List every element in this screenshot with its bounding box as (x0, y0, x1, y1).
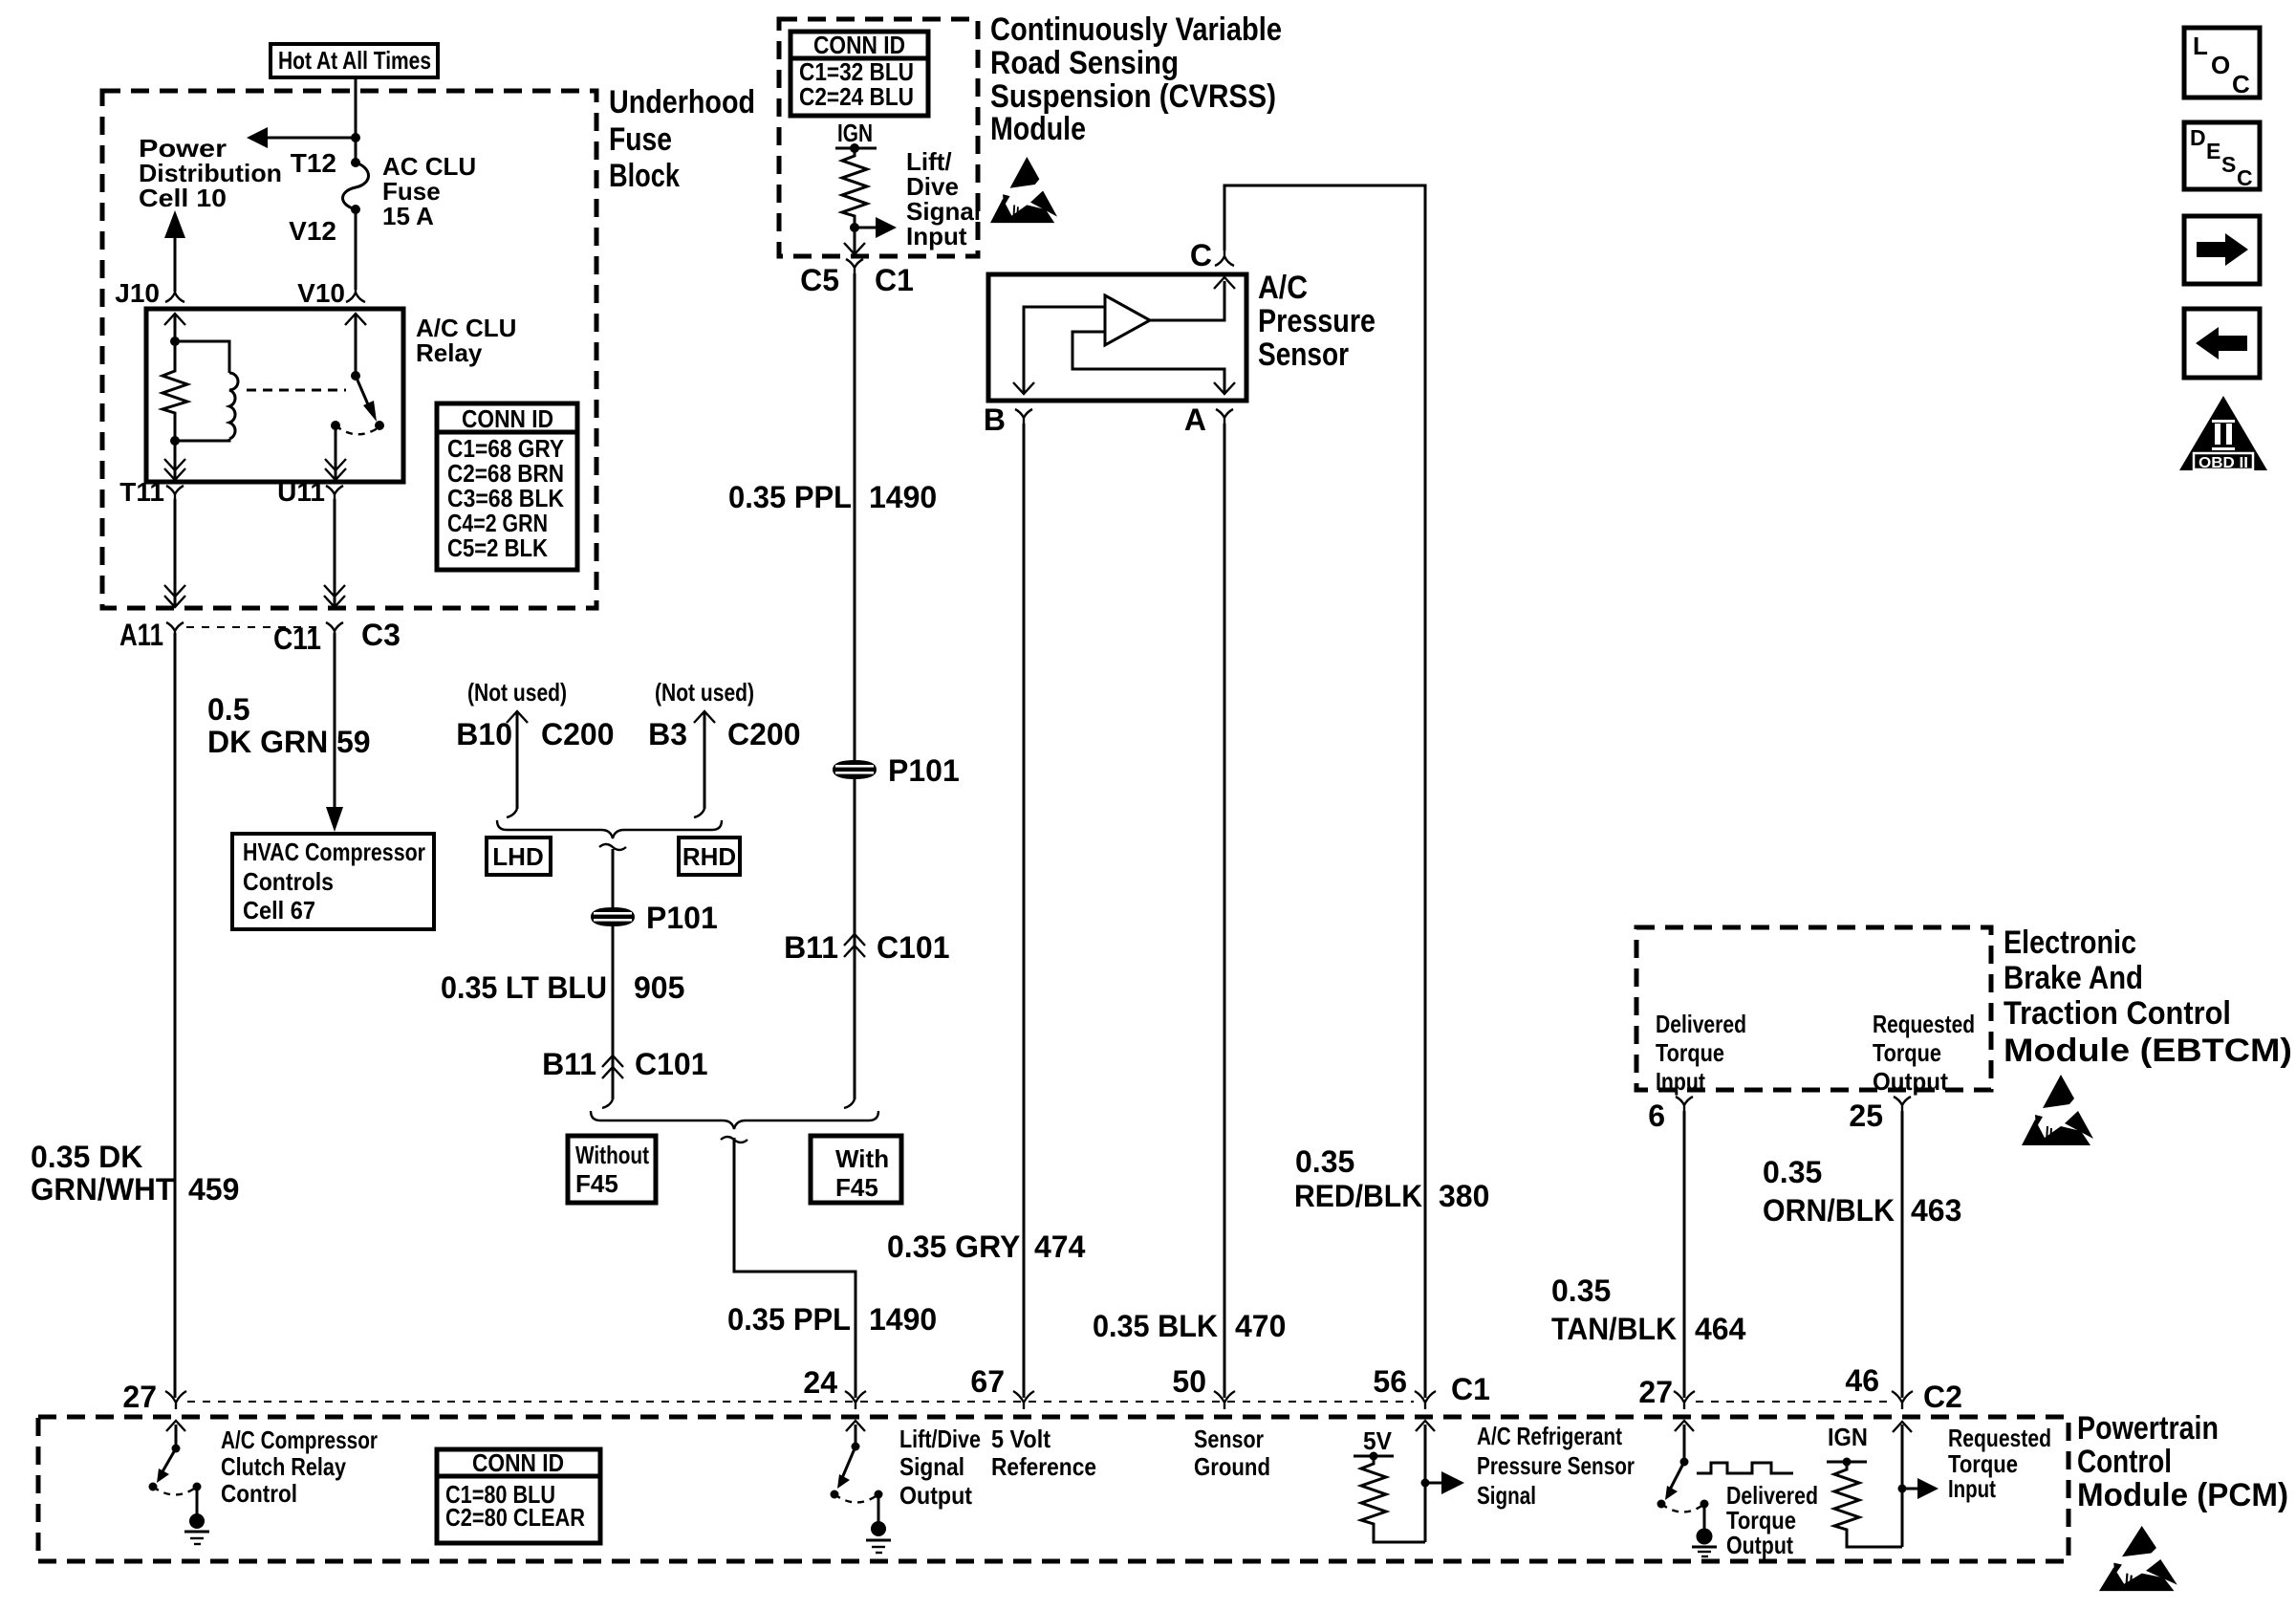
svg-text:B: B (984, 402, 1006, 437)
svg-text:RHD: RHD (682, 842, 736, 871)
svg-text:Requested: Requested (1873, 1010, 1975, 1038)
wire from brace2 down and jog to pin 24 (734, 1138, 856, 1398)
wire pin 25 down to PCM pin 46 (1901, 1111, 1904, 1398)
PCM module dashed box (38, 1417, 2069, 1561)
wire C up and over to pin 56 (1224, 185, 1425, 1398)
label Lift/ Dive Signal Input (906, 147, 981, 250)
pass-through B11 C101 (left wire) (542, 1047, 707, 1081)
RHD option box (679, 838, 740, 875)
svg-text:E: E (2206, 139, 2220, 163)
label AC CLU Fuse 15 A (382, 152, 476, 230)
ESD symbol (PCM) (2099, 1526, 2177, 1591)
label Sensor Ground (1194, 1425, 1270, 1481)
svg-text:27: 27 (122, 1380, 157, 1414)
connector V10 (female down) (346, 286, 365, 302)
svg-text:V12: V12 (289, 216, 336, 246)
relay coil bottom node (170, 436, 180, 446)
sensor internal wiring lower input from A (1072, 332, 1235, 394)
svg-text:24: 24 (803, 1365, 837, 1400)
svg-text:C5: C5 (800, 263, 839, 297)
Without F45 option box (568, 1136, 656, 1203)
svg-text:C1: C1 (875, 263, 914, 297)
svg-text:B10: B10 (456, 717, 512, 751)
pin 24 driver switch to ground (831, 1421, 892, 1553)
CONN ID table (PCM) (437, 1448, 600, 1543)
label A/C Refrigerant Pressure Sensor Signal (1477, 1422, 1635, 1510)
svg-text:0.35 DK: 0.35 DK (31, 1140, 142, 1174)
svg-text:46: 46 (1845, 1363, 1879, 1398)
option squiggle below brace (599, 844, 626, 850)
relay mechanical dashed link from coil (247, 389, 346, 392)
connector A below sensor (1184, 402, 1233, 437)
svg-text:A/C Compressor: A/C Compressor (221, 1425, 378, 1454)
A/C Pressure Sensor box (988, 274, 1246, 401)
svg-text:56: 56 (1373, 1364, 1407, 1399)
relay pin T11 connector and label (119, 477, 184, 507)
svg-text:C2: C2 (1923, 1380, 1962, 1414)
PCM pin 27 (C2) connector (1638, 1375, 1695, 1409)
svg-text:U11: U11 (277, 477, 325, 507)
svg-text:C2=24 BLU: C2=24 BLU (799, 82, 914, 111)
B10 C200 stub arrow (456, 711, 614, 817)
label 0.35 DK GRN/WHT 459 (31, 1140, 239, 1207)
CONN ID table (relay) (437, 403, 577, 570)
svg-text:Output: Output (899, 1481, 972, 1510)
svg-text:15 A: 15 A (382, 202, 434, 230)
svg-text:A/C Refrigerant: A/C Refrigerant (1477, 1422, 1622, 1450)
svg-text:Electronic: Electronic (2004, 925, 2136, 961)
CONN ID table (CVRSS) (791, 31, 928, 116)
thin dashed connector line C2 (1696, 1401, 1889, 1403)
svg-text:D: D (2190, 125, 2206, 150)
relay coil-side pin chevron arrow (164, 314, 185, 341)
label A/C CLU Relay (416, 314, 516, 367)
svg-text:Module: Module (990, 111, 1086, 147)
svg-text:0.35 LT BLU: 0.35 LT BLU (441, 970, 607, 1005)
svg-text:Module (EBTCM): Module (EBTCM) (2004, 1033, 2292, 1069)
wire branch to Power Distribution with arrow (247, 127, 360, 148)
svg-text:Input: Input (906, 222, 967, 250)
svg-text:Powertrain: Powertrain (2077, 1410, 2219, 1447)
connector A11 (119, 618, 184, 652)
svg-text:Signal: Signal (899, 1452, 964, 1481)
square wave symbol (1697, 1463, 1793, 1473)
svg-text:B11: B11 (784, 930, 838, 965)
relay switch output contact node (331, 421, 340, 430)
B3 C200 stub arrow (648, 711, 800, 817)
pin 56 wire with arrow and signal branch (1416, 1421, 1464, 1542)
svg-text:Output: Output (1873, 1067, 1948, 1096)
svg-text:V10: V10 (297, 278, 345, 308)
svg-text:50: 50 (1172, 1364, 1206, 1399)
CVRSS branch node (850, 223, 859, 232)
PCM pin 50 connector (1172, 1364, 1235, 1409)
IGN pull-up resistor circuit (1827, 1458, 1897, 1548)
svg-text:59: 59 (336, 725, 371, 759)
connector C11 / C3 (273, 618, 401, 656)
svg-text:Torque: Torque (1873, 1038, 1941, 1067)
label 0.35 GRY 474 (887, 1229, 1086, 1264)
wire V12 to V10 (355, 209, 357, 290)
brace joining B10/B3 branches (497, 820, 722, 838)
svg-text:Signal: Signal (1477, 1481, 1536, 1510)
connector B below sensor (984, 402, 1032, 437)
label 0.35 BLK 470 (1093, 1309, 1286, 1343)
svg-text:RED/BLK: RED/BLK (1294, 1179, 1422, 1213)
ESD symbol (EBTCM) (2022, 1075, 2093, 1145)
svg-text:CONN ID: CONN ID (472, 1448, 564, 1477)
svg-text:1490: 1490 (869, 480, 937, 514)
svg-text:F45: F45 (575, 1169, 618, 1198)
wire A11 down to PCM pin 27 (174, 633, 177, 1398)
svg-text:Cell 10: Cell 10 (139, 184, 227, 212)
svg-text:Hot At All Times: Hot At All Times (278, 46, 431, 75)
svg-text:Continuously Variable: Continuously Variable (990, 11, 1282, 48)
connector pin 25 below EBTCM (1849, 1097, 1911, 1133)
relay switch pivot node (351, 371, 360, 381)
wire C11 down to HVAC box with solid arrow (326, 633, 343, 832)
svg-text:T11: T11 (119, 477, 164, 507)
svg-text:C1: C1 (1451, 1372, 1490, 1406)
svg-text:GRN/WHT: GRN/WHT (31, 1172, 174, 1207)
With F45 option box (811, 1136, 901, 1203)
svg-text:HVAC Compressor: HVAC Compressor (243, 838, 425, 866)
EBTCM module dashed box (1636, 927, 1991, 1090)
svg-text:A11: A11 (119, 618, 163, 652)
svg-text:Suspension (CVRSS): Suspension (CVRSS) (990, 78, 1276, 115)
PCM pin 27 connector (122, 1380, 186, 1414)
splice P101 (right wire) (833, 753, 960, 788)
svg-text:Delivered: Delivered (1656, 1010, 1746, 1038)
wire U11 down to fuse block edge with double chevron (324, 499, 345, 607)
connector C above sensor (female down) (1190, 238, 1234, 272)
label Electronic Brake And Traction Control Module (EBTCM) (2004, 925, 2292, 1069)
svg-text:27: 27 (1638, 1375, 1673, 1409)
Lift/Dive signal input right arrow (855, 217, 897, 238)
svg-text:LHD: LHD (492, 842, 543, 871)
label 0.35 PPL 1490 (upper) (728, 480, 937, 514)
svg-text:5 Volt: 5 Volt (991, 1425, 1051, 1453)
svg-text:0.35: 0.35 (1295, 1144, 1354, 1179)
HVAC Compressor Controls box (232, 834, 434, 929)
svg-text:Pressure Sensor: Pressure Sensor (1477, 1451, 1635, 1480)
label Continuously Variable Road Sensing Suspension (CVRSS) Module (990, 11, 1282, 147)
hook at bottom of right PPL wire (844, 1099, 855, 1108)
CVRSS pull resistor (842, 148, 867, 228)
legend LOC box (2184, 28, 2260, 98)
label 0.35 LT BLU 905 (441, 970, 684, 1005)
legend left-arrow box (2184, 309, 2260, 378)
connector pin 6 below EBTCM (1648, 1097, 1693, 1133)
svg-text:C200: C200 (727, 717, 801, 751)
svg-text:25: 25 (1849, 1099, 1883, 1133)
svg-text:Control: Control (2077, 1444, 2172, 1480)
svg-text:C200: C200 (541, 717, 615, 751)
relay switch dashed travel arc (336, 425, 378, 434)
relay coil (175, 341, 238, 441)
splice P101 (left wire) (591, 901, 718, 935)
PCM pin 56 connector / C1 (1373, 1364, 1490, 1409)
svg-text:C3: C3 (361, 618, 401, 652)
op-amp U1 triangle (1105, 295, 1150, 345)
svg-text:L: L (2193, 32, 2208, 60)
svg-text:Pressure: Pressure (1258, 303, 1375, 339)
svg-text:463: 463 (1911, 1193, 1961, 1228)
pin 27 driver switch to ground (149, 1421, 210, 1544)
svg-text:Sensor: Sensor (1194, 1425, 1264, 1453)
relay coil top node (170, 337, 180, 346)
svg-text:Control: Control (221, 1479, 297, 1508)
LHD option box (487, 838, 551, 875)
wire pin 6 down to PCM pin 27 (1683, 1111, 1686, 1398)
label Underhood Fuse Block (609, 84, 755, 194)
svg-text:B11: B11 (542, 1047, 596, 1081)
svg-text:CONN ID: CONN ID (813, 31, 905, 59)
relay output wire with double chevron (325, 425, 346, 480)
label 5 Volt Reference (991, 1425, 1096, 1481)
label Requested Torque Input (1948, 1424, 2051, 1503)
PCM pin 46 connector / C2 (1845, 1363, 1962, 1414)
relay A/C CLU box (146, 309, 403, 482)
Underhood Fuse Block module dashed box (102, 91, 596, 608)
svg-text:(Not used): (Not used) (655, 678, 754, 707)
svg-text:Relay: Relay (416, 338, 483, 367)
svg-text:Brake And: Brake And (2004, 960, 2143, 996)
svg-text:J10: J10 (115, 278, 160, 308)
svg-text:Cell 67: Cell 67 (243, 896, 315, 925)
svg-text:Block: Block (609, 158, 680, 194)
arrow up to Power Distribution from J10 (164, 210, 185, 292)
sensor internal wiring B input (1013, 307, 1105, 394)
svg-text:Input: Input (1656, 1067, 1705, 1096)
svg-text:C2=80 CLEAR: C2=80 CLEAR (445, 1503, 585, 1532)
svg-text:Traction Control: Traction Control (2004, 995, 2231, 1032)
svg-text:0.35: 0.35 (1763, 1155, 1822, 1189)
svg-text:P101: P101 (888, 753, 960, 788)
svg-text:Lift/Dive: Lift/Dive (899, 1425, 981, 1453)
relay resistor (162, 341, 187, 441)
ESD symbol (CVRSS) (990, 157, 1057, 223)
svg-text:464: 464 (1695, 1312, 1746, 1346)
svg-text:6: 6 (1648, 1099, 1665, 1133)
fuse AC CLU 15A symbol (343, 158, 369, 214)
label A/C Compressor Clutch Relay Control (221, 1425, 378, 1508)
svg-text:470: 470 (1235, 1309, 1286, 1343)
5V pull-up resistor circuit (1354, 1452, 1425, 1543)
wire PPL from C5 down (854, 273, 856, 1099)
sensor internal output to C (1150, 277, 1235, 320)
svg-text:905: 905 (634, 970, 684, 1005)
PCM pin 67 connector (970, 1364, 1034, 1409)
svg-text:With: With (835, 1144, 889, 1173)
hook at bottom of left wire (602, 1099, 613, 1108)
label Delivered Torque Input (EBTCM) (1656, 1010, 1746, 1096)
label 0.35 ORN/BLK 463 (1763, 1155, 1961, 1228)
svg-text:TAN/BLK: TAN/BLK (1551, 1312, 1677, 1346)
svg-text:459: 459 (188, 1172, 239, 1207)
pass-through B11 C101 (right wire) (784, 930, 949, 965)
label 0.35 TAN/BLK 464 (1551, 1273, 1746, 1346)
svg-text:Reference: Reference (991, 1452, 1096, 1481)
thin dashed connector line A11-C11 (186, 626, 323, 628)
relay switch common pin chevron arrow (345, 314, 366, 376)
label Power Distribution Cell 10 (139, 134, 282, 212)
svg-text:0.5: 0.5 (207, 692, 249, 727)
relay coil output wire with double chevron (164, 441, 185, 480)
wire B down to pin 67 (1023, 424, 1026, 1398)
legend DESC box (2184, 122, 2260, 190)
svg-text:ORN/BLK: ORN/BLK (1763, 1193, 1895, 1228)
svg-text:C101: C101 (877, 930, 950, 965)
svg-text:0.35: 0.35 (1551, 1273, 1611, 1308)
svg-text:A/C: A/C (1258, 270, 1308, 306)
label 0.35 RED/BLK 380 (1294, 1144, 1489, 1213)
brace2 joining Without/With F45 options (591, 1111, 878, 1129)
svg-text:T12: T12 (291, 148, 336, 178)
svg-text:0.35 PPL: 0.35 PPL (728, 480, 852, 514)
svg-text:Fuse: Fuse (609, 121, 672, 158)
IGN supply bar and node (835, 143, 877, 153)
svg-text:Output: Output (1726, 1531, 1793, 1559)
label Requested Torque Output (EBTCM) (1873, 1010, 1975, 1096)
thin dashed connector line C1 (187, 1401, 1414, 1403)
svg-text:Road Sensing: Road Sensing (990, 45, 1179, 81)
legend OBD II triangle (2179, 396, 2267, 471)
svg-text:Ground: Ground (1194, 1452, 1270, 1481)
label Lift/Dive Signal Output (899, 1425, 981, 1510)
CVRSS output chevron arrow down to module edge (854, 228, 856, 252)
svg-text:Controls: Controls (243, 867, 334, 896)
svg-text:DK GRN: DK GRN (207, 725, 328, 759)
svg-text:Underhood: Underhood (609, 84, 755, 120)
svg-text:474: 474 (1034, 1229, 1086, 1264)
svg-text:A: A (1184, 402, 1206, 437)
svg-text:Module (PCM): Module (PCM) (2077, 1477, 2288, 1513)
CVRSS module dashed box (779, 19, 978, 256)
pin 27 (C2) driver switch to ground (1657, 1421, 1718, 1556)
legend right-arrow box (2184, 216, 2260, 284)
svg-text:IGN: IGN (837, 119, 873, 147)
option squiggle below brace2 (721, 1137, 747, 1142)
svg-text:1490: 1490 (869, 1302, 937, 1337)
connector C5/C1 below CVRSS (800, 259, 914, 297)
wire from brace down to P101 (612, 849, 615, 1099)
pin 46 wire with arrow and signal branch (1893, 1422, 1939, 1547)
connector J10 (female down) (165, 286, 184, 302)
svg-text:(Not used): (Not used) (467, 678, 567, 707)
svg-text:0.35 BLK: 0.35 BLK (1093, 1309, 1218, 1343)
svg-text:S: S (2221, 152, 2236, 177)
svg-text:Input: Input (1948, 1474, 1996, 1503)
svg-text:0.35 GRY: 0.35 GRY (887, 1229, 1020, 1264)
svg-text:O: O (2211, 51, 2230, 79)
svg-text:OBD II: OBD II (2199, 455, 2248, 471)
svg-text:Requested: Requested (1948, 1424, 2051, 1452)
svg-text:C: C (1190, 238, 1212, 272)
svg-text:C101: C101 (635, 1047, 708, 1081)
wire T11 down to fuse block edge with double chevron (164, 499, 185, 607)
svg-text:CONN ID: CONN ID (462, 404, 553, 433)
relay pin U11 connector and label (277, 477, 343, 507)
svg-text:5V: 5V (1363, 1426, 1393, 1455)
svg-text:Torque: Torque (1656, 1038, 1724, 1067)
PCM pin 24 connector (803, 1365, 866, 1409)
Hot At All Times box (271, 44, 438, 77)
label A/C Pressure Sensor (1258, 270, 1375, 373)
relay switch arm with arrowhead (356, 376, 384, 430)
label Delivered Torque Output (1726, 1481, 1818, 1559)
svg-text:C5=2 BLK: C5=2 BLK (447, 533, 548, 562)
label Powertrain Control Module (PCM) (2077, 1410, 2288, 1513)
svg-text:P101: P101 (646, 901, 718, 935)
svg-text:Without: Without (575, 1141, 649, 1169)
svg-text:IGN: IGN (1828, 1423, 1868, 1451)
label 0.35 PPL 1490 (lower) (727, 1302, 937, 1337)
label 0.5 DK GRN 59 (207, 692, 371, 759)
svg-text:380: 380 (1439, 1179, 1489, 1213)
svg-text:67: 67 (970, 1364, 1005, 1399)
svg-text:B3: B3 (648, 717, 687, 751)
svg-text:0.35 PPL: 0.35 PPL (727, 1302, 851, 1337)
wire A down to pin 50 (1224, 424, 1226, 1398)
svg-text:Sensor: Sensor (1258, 337, 1349, 373)
svg-text:C: C (2237, 165, 2253, 190)
wire from Hot At All Times down to fuse (355, 77, 357, 163)
svg-text:Clutch Relay: Clutch Relay (221, 1452, 346, 1481)
svg-text:C: C (2232, 70, 2250, 98)
svg-text:F45: F45 (835, 1173, 878, 1202)
